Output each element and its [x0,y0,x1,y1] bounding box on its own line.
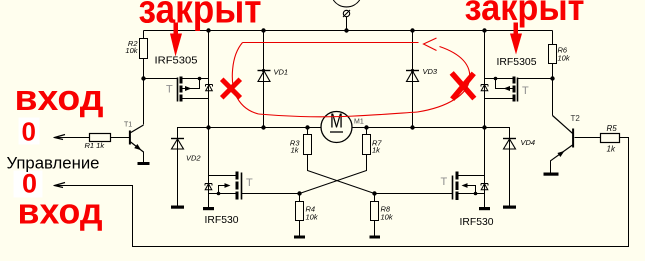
body diode of upper-left MOSFET [206,85,213,91]
svg-text:закрыт: закрыт [465,0,585,28]
transistor T1 [124,122,144,163]
svg-text:Управление: Управление [7,154,100,173]
wire: R4 to ground [299,221,301,236]
diode VD2 [171,139,201,163]
node: supply junction dots on top rail [206,28,486,32]
svg-text:VD1: VD1 [274,68,289,77]
transistor T2 [551,114,581,173]
terminal X1 (supply input circle with slash) [333,0,359,17]
ground under lower-right MOSFET [479,207,490,210]
svg-text:10k: 10k [558,54,571,63]
wire: motor rail right [352,127,485,129]
wire: input 1 line to R1 [54,137,90,139]
wire: VD3 branch vertical [412,31,414,128]
svg-text:1k: 1k [607,145,616,154]
svg-text:закрыт: закрыт [139,0,262,32]
wire: R3 top [307,128,309,135]
node: gate junction dots [141,76,554,195]
svg-text:вход: вход [18,191,103,232]
wire: left drain rail [208,31,210,128]
ground under VD4 [503,206,516,209]
diode VD4 [503,138,535,149]
svg-text:10k: 10k [306,213,319,222]
svg-text:IRF5305: IRF5305 [155,55,198,67]
svg-text:R5: R5 [607,124,618,133]
wire: right drain rail [484,31,486,128]
annotation: red current loop [232,38,469,117]
wire: VD4 to ground [509,139,511,206]
svg-text:T1: T1 [124,122,132,129]
wire: VD2 to ground [177,139,179,206]
resistor R6 [549,45,571,64]
svg-text:T: T [246,177,253,189]
ground of T2 emitter [544,173,559,176]
svg-text:M1: M1 [354,119,364,126]
annotation: red down arrow right [510,23,522,55]
wire: gate lead of left IRF5305 [144,78,178,80]
wire: R8 top lead [374,194,376,202]
wire: R8 to ground [374,221,376,236]
resistor R3 [290,135,312,155]
wire: R3 bottom to crossover [308,155,375,194]
annotation: loop arrowhead [424,38,437,51]
annotation: red down arrow left [170,23,182,57]
body diode of lower-left MOSFET [205,184,212,190]
body diode of lower-right MOSFET [481,184,488,190]
svg-text:T: T [441,176,448,188]
wire: R2 bottom to gate node [143,59,145,79]
wire: R7 bottom to crossover [300,155,367,194]
wire: lower-right gate line [375,193,453,195]
wire: terminal drop [346,17,348,31]
wire: lower-left gate line [242,193,300,195]
diode VD3 [406,67,438,82]
op: lower-left MOSFET IRF530 [205,172,254,227]
body diode of upper-right MOSFET [481,85,488,91]
resistor R4 [296,202,319,222]
wire: right rail down to lower MOSFET and ground [484,128,486,208]
svg-text:T: T [522,85,529,97]
op: upper-left MOSFET IRF5305 [155,55,213,102]
label: white halo behind upper 0 [19,118,40,145]
svg-text:0: 0 [22,117,36,147]
input arrow 1 [55,135,66,140]
wire: left vertical to R2 [143,31,145,39]
resistor R1 [85,134,111,151]
wire: VD1 branch vertical [263,31,265,128]
wire: R4 top lead [299,194,301,202]
svg-text:IRF530: IRF530 [205,214,239,226]
ground under lower-left MOSFET [203,207,214,210]
resistor R8 [371,202,394,222]
svg-text:1k: 1k [291,146,300,155]
annotation: red X left [224,81,239,96]
svg-text:VD4: VD4 [521,138,536,147]
node: motor rail junction dots [206,125,486,129]
wire: VD2 branch corner [178,128,209,139]
svg-text:IRF5305: IRF5305 [497,56,537,68]
op: upper-right MOSFET IRF5305 [481,56,537,102]
wire: T1 collector riser [143,79,145,125]
ground under R4 [294,236,305,239]
wire: right vertical R6 top [552,31,554,45]
wire: left rail down to lower MOSFET and ground [208,128,210,208]
annotation: red X right [454,75,473,97]
op: lower-right MOSFET IRF530 [441,172,494,229]
wire: VD4 branch corner [485,128,510,139]
wire: R7 top [366,128,368,135]
wire: motor rail left [209,127,322,129]
svg-text:10k: 10k [381,213,394,222]
svg-text:VD3: VD3 [423,67,438,76]
resistor R7 [363,135,383,155]
wire: T2 collector riser [552,79,554,116]
wire: input 2 control line [54,138,629,247]
motor M1 [321,111,364,143]
svg-text:вход: вход [15,77,104,118]
ground under R8 [370,236,381,239]
label: white halo behind lower 0 [14,171,43,198]
diode VD1 [258,68,289,82]
svg-text:R1 1k: R1 1k [85,141,106,150]
wire: R5 to T2 base [575,137,601,139]
wire: top supply rail [144,30,553,32]
resistor R5 [601,124,620,154]
wire: gate lead of right IRF5305 [518,78,553,80]
svg-text:10k: 10k [125,46,138,55]
ground of T1 emitter [138,162,150,165]
svg-text:T2: T2 [571,114,581,123]
ground under VD2 [171,206,184,209]
svg-text:T: T [166,84,173,96]
svg-text:1k: 1k [372,146,381,155]
input arrow 2 [55,183,66,188]
svg-text:M: M [330,111,343,133]
svg-text:IRF530: IRF530 [460,216,494,228]
resistor R2 [125,39,147,59]
svg-text:VD2: VD2 [186,154,201,163]
wire: R6 bottom to gate node [552,64,554,79]
wire: R1 to T1 base [111,137,130,139]
